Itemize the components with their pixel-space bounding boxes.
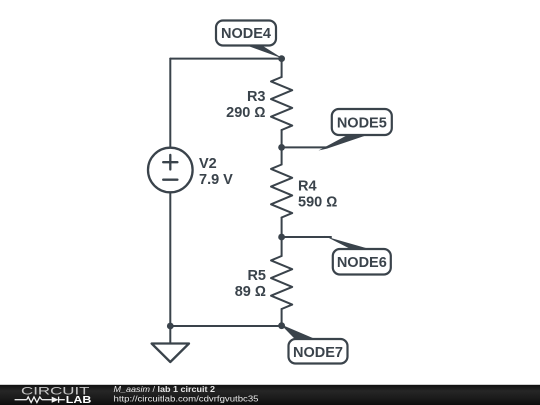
svg-text:590 Ω: 590 Ω [298, 195, 337, 211]
svg-text:7.9 V: 7.9 V [199, 172, 233, 188]
node NODE7 flag [281, 324, 348, 363]
wire ground stub [169, 326, 171, 344]
wire R5 to bottom [281, 309, 283, 326]
junction node7 dot [278, 322, 285, 329]
svg-text:R4: R4 [298, 179, 317, 195]
wire node5 junction to R4 [281, 147, 283, 164]
wire node6 junction to R5 [281, 237, 283, 256]
svg-text:R3: R3 [247, 89, 266, 105]
svg-text:M_aasim / lab 1 circuit 2: M_aasim / lab 1 circuit 2 [114, 385, 216, 394]
label R5 value [235, 268, 266, 300]
label R3 value [226, 89, 265, 121]
svg-text:R5: R5 [247, 268, 266, 284]
svg-text:http://circuitlab.com/cdvrfgvu: http://circuitlab.com/cdvrfgvutbc35 [114, 395, 260, 404]
wire node5 stub to label [282, 146, 327, 148]
svg-text:NODE4: NODE4 [221, 26, 271, 42]
voltage source V2 [148, 148, 193, 193]
node NODE6 flag [325, 236, 391, 275]
svg-text:V2: V2 [199, 156, 217, 172]
wire bottom horizontal NODE7 net [170, 325, 281, 327]
resistor R3 [271, 77, 292, 130]
svg-text:89 Ω: 89 Ω [235, 284, 266, 300]
node NODE5 flag [319, 109, 392, 151]
wire right vertical top segment [281, 59, 283, 77]
logo resistor-diode glyph [15, 397, 65, 403]
junction node5 dot [278, 144, 285, 151]
wire top horizontal NODE4 net [170, 58, 281, 60]
label R4 value [298, 179, 337, 211]
svg-text:NODE6: NODE6 [337, 255, 387, 271]
svg-text:NODE5: NODE5 [337, 115, 387, 131]
ground [152, 344, 189, 363]
junction node6 dot [278, 234, 285, 241]
svg-text:290 Ω: 290 Ω [226, 105, 265, 121]
wire R3 to node5 junction [281, 130, 283, 147]
junction node4 dot [278, 55, 285, 62]
resistor R4 [271, 165, 292, 218]
wire left vertical upper [169, 59, 171, 148]
junction ground dot [167, 323, 174, 330]
node NODE4 flag [216, 21, 283, 59]
svg-text:NODE7: NODE7 [293, 345, 343, 361]
resistor R5 [271, 256, 292, 309]
svg-text:LAB: LAB [66, 395, 92, 405]
label V2 value [199, 156, 233, 188]
wire R4 to node6 junction [281, 218, 283, 238]
wire left vertical lower [169, 192, 171, 326]
wire node6 stub to label [282, 236, 331, 238]
